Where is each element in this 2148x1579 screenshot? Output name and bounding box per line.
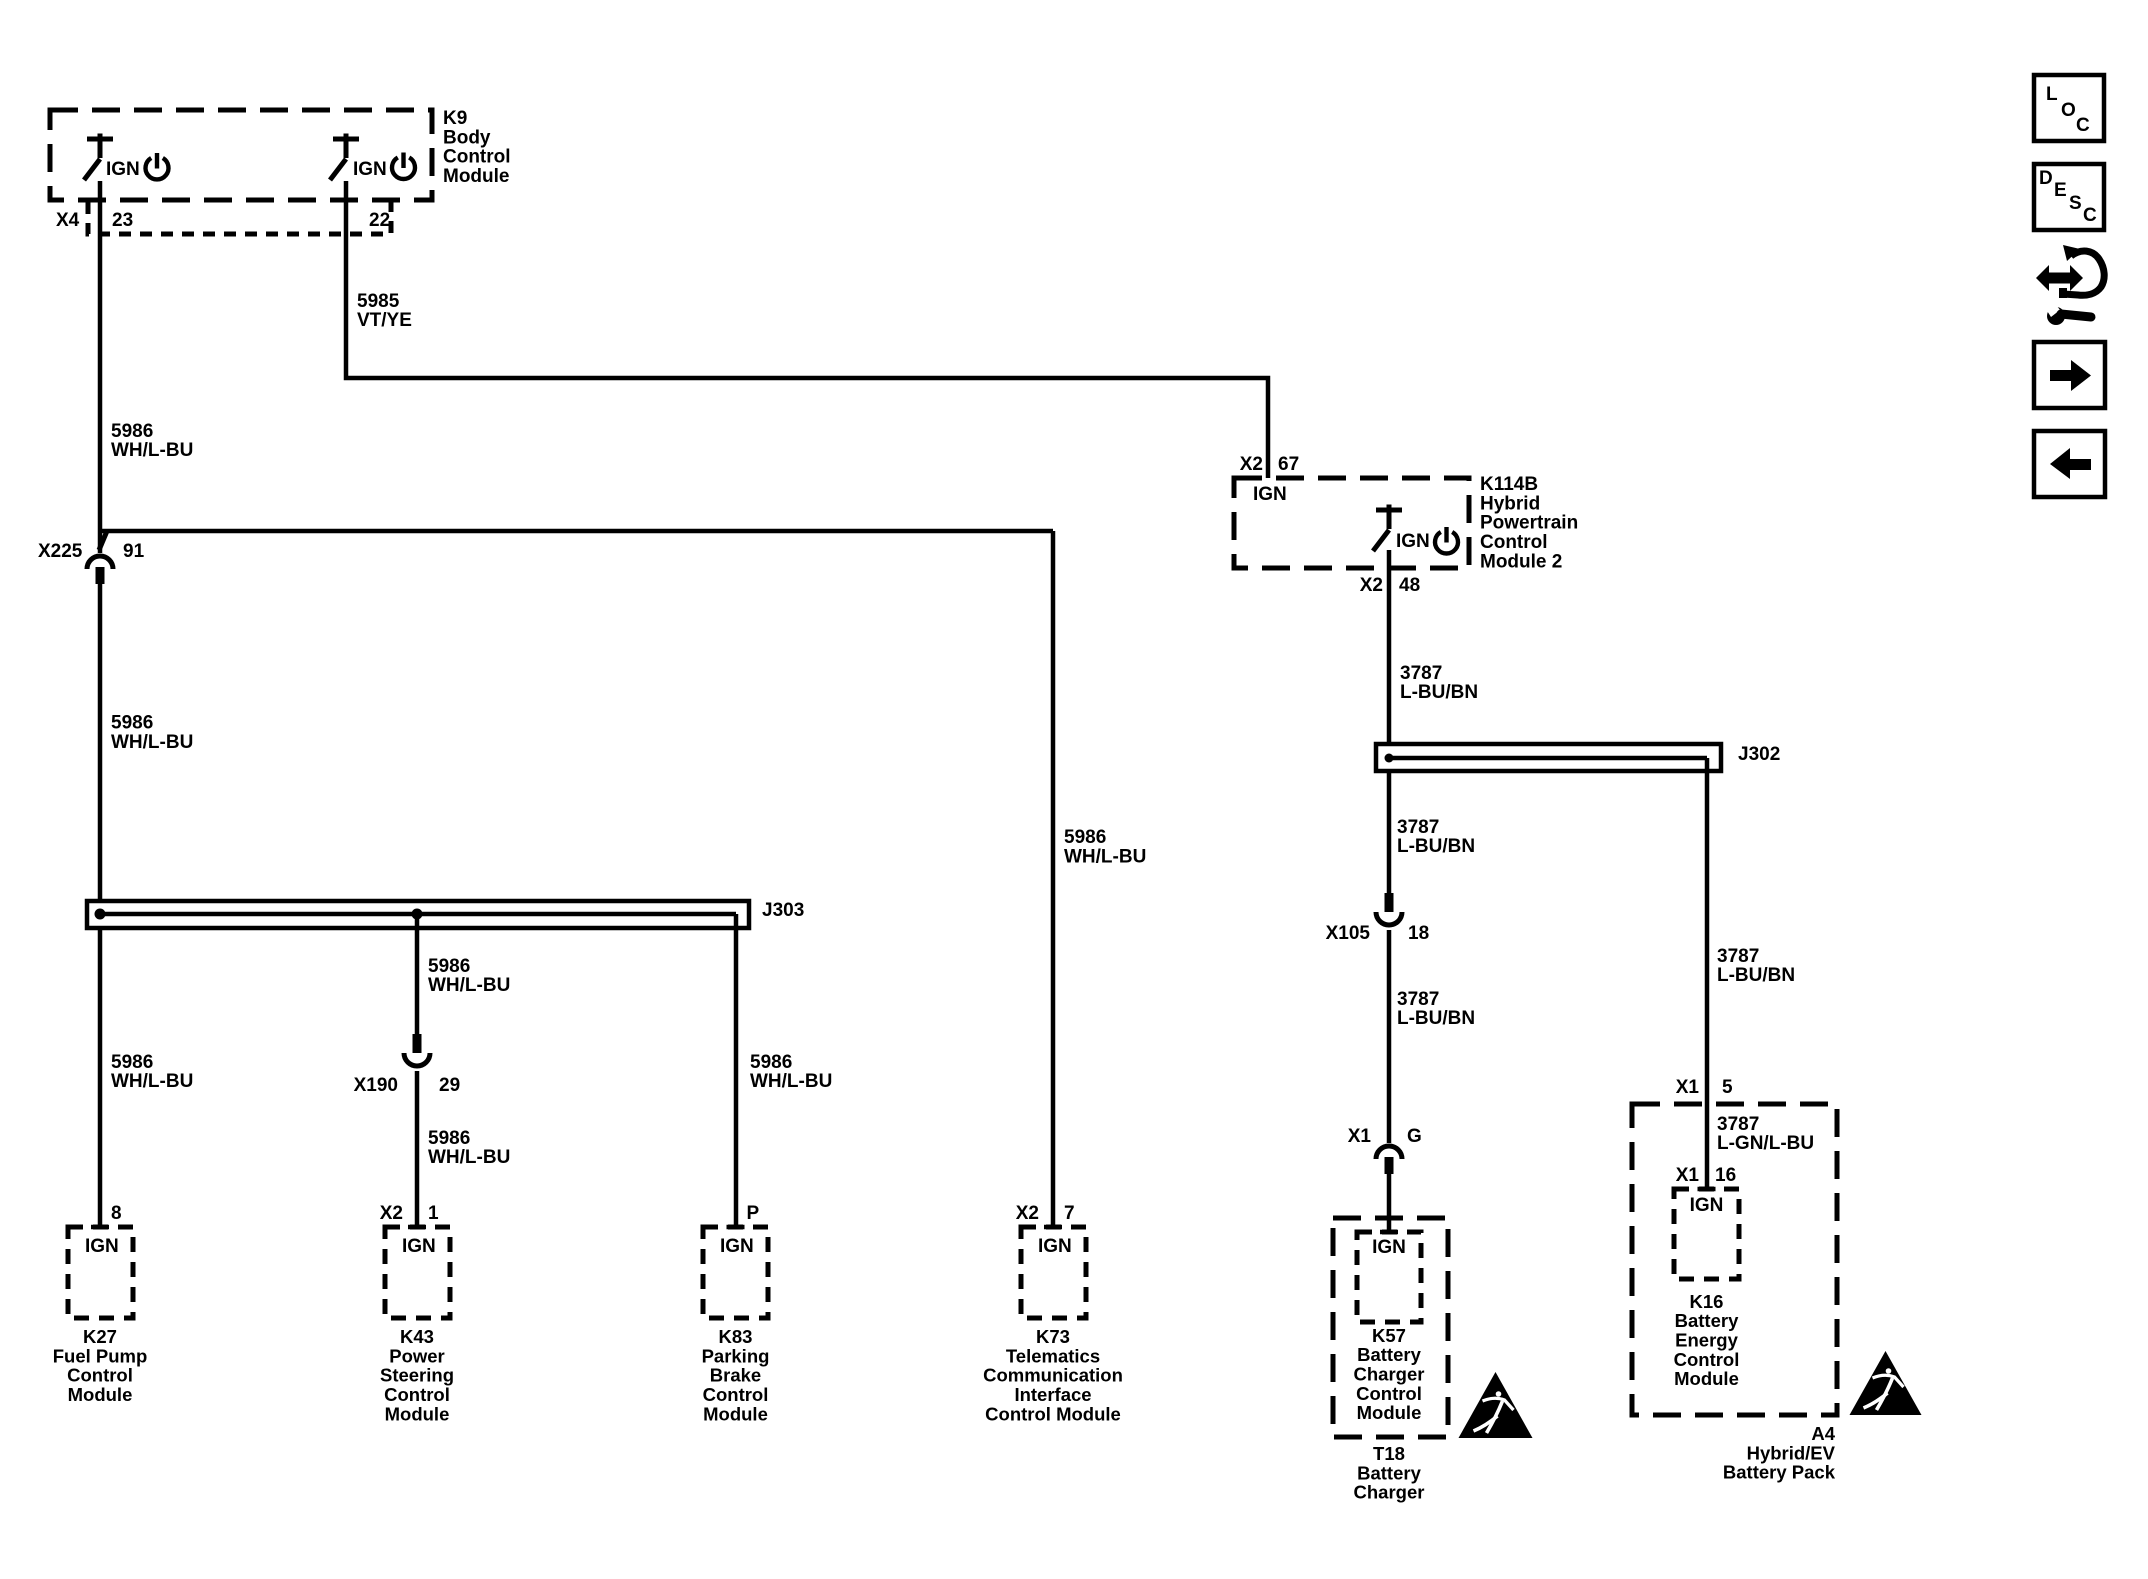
svg-text:X1: X1 xyxy=(1348,1126,1372,1147)
wire 5985 VT/YE from K9 pin 22 to K114B X2-67 xyxy=(346,181,1268,478)
svg-text:A4: A4 xyxy=(1811,1423,1835,1444)
svg-text:Module 2: Module 2 xyxy=(1480,551,1562,572)
svg-text:X1: X1 xyxy=(1676,1165,1700,1186)
wire 3787 X105 to X1-G xyxy=(1387,930,1392,1143)
svg-text:5986: 5986 xyxy=(428,956,470,977)
svg-text:T18: T18 xyxy=(1373,1443,1405,1464)
wire 3787 J302 to K16 xyxy=(1705,771,1710,1189)
svg-text:L-BU/BN: L-BU/BN xyxy=(1400,682,1478,703)
svg-text:X2: X2 xyxy=(1240,454,1263,475)
svg-text:WH/L-BU: WH/L-BU xyxy=(750,1071,832,1092)
svg-text:L-BU/BN: L-BU/BN xyxy=(1397,836,1475,857)
wire branch 5986 to K73 (horizontal) xyxy=(100,529,1053,534)
svg-text:22: 22 xyxy=(369,210,390,231)
J302 bus exit down xyxy=(1705,758,1710,771)
svg-text:L-BU/BN: L-BU/BN xyxy=(1397,1008,1475,1029)
svg-text:WH/L-BU: WH/L-BU xyxy=(428,975,510,996)
module box K114B Hybrid Powertrain Control Module 2 xyxy=(1234,478,1469,568)
svg-text:X190: X190 xyxy=(354,1075,398,1096)
svg-text:Control: Control xyxy=(1356,1383,1422,1404)
svg-text:91: 91 xyxy=(123,541,145,562)
icon button next (right arrow) xyxy=(2034,342,2105,408)
svg-text:Powertrain: Powertrain xyxy=(1480,513,1578,534)
svg-text:D: D xyxy=(2039,168,2053,189)
svg-text:Control: Control xyxy=(703,1384,769,1405)
svg-text:L-GN/L-BU: L-GN/L-BU xyxy=(1717,1133,1814,1154)
svg-text:WH/L-BU: WH/L-BU xyxy=(111,440,193,461)
svg-text:IGN: IGN xyxy=(85,1236,119,1257)
svg-text:Control: Control xyxy=(1674,1349,1740,1370)
svg-text:18: 18 xyxy=(1408,923,1429,944)
svg-text:IGN: IGN xyxy=(1038,1236,1072,1257)
svg-text:Steering: Steering xyxy=(380,1365,454,1386)
component box A4 Hybrid/EV Battery Pack (outer) xyxy=(1632,1104,1837,1415)
svg-text:5986: 5986 xyxy=(750,1052,792,1073)
svg-text:3787: 3787 xyxy=(1717,946,1759,967)
svg-text:WH/L-BU: WH/L-BU xyxy=(428,1147,510,1168)
J303 internal bus xyxy=(100,912,736,917)
svg-text:IGN: IGN xyxy=(1690,1195,1724,1216)
power symbol (K114B switch) xyxy=(1435,532,1458,553)
svg-text:X2: X2 xyxy=(1016,1203,1039,1224)
svg-text:IGN: IGN xyxy=(353,159,387,180)
svg-text:E: E xyxy=(2054,180,2067,201)
J303 bus exit down xyxy=(734,914,739,928)
svg-text:K73: K73 xyxy=(1036,1326,1070,1347)
svg-text:WH/L-BU: WH/L-BU xyxy=(111,1071,193,1092)
svg-text:Control: Control xyxy=(1480,532,1548,553)
ignition switch contact 2 (K9 pin 22) xyxy=(333,137,359,142)
svg-text:Module: Module xyxy=(1357,1402,1422,1423)
svg-text:C: C xyxy=(2083,205,2097,226)
svg-text:3787: 3787 xyxy=(1400,663,1442,684)
wire 5986 from X225 to J303 xyxy=(98,584,103,903)
svg-text:5986: 5986 xyxy=(1064,827,1106,848)
wire 3787 from K114B switch to J302 xyxy=(1387,550,1392,744)
svg-text:Brake: Brake xyxy=(710,1365,761,1386)
svg-text:48: 48 xyxy=(1399,575,1420,596)
svg-text:IGN: IGN xyxy=(1253,484,1287,505)
svg-text:Battery Pack: Battery Pack xyxy=(1723,1462,1836,1483)
warning triangle (shock hazard, A4) xyxy=(1850,1351,1922,1415)
svg-text:K27: K27 xyxy=(83,1326,117,1347)
svg-text:Telematics: Telematics xyxy=(1006,1345,1100,1366)
svg-text:IGN: IGN xyxy=(402,1236,436,1257)
svg-text:Control: Control xyxy=(67,1365,133,1386)
svg-text:VT/YE: VT/YE xyxy=(357,310,412,331)
wire into K57 xyxy=(1387,1174,1392,1232)
svg-text:Module: Module xyxy=(385,1403,450,1424)
svg-text:3787: 3787 xyxy=(1397,989,1439,1010)
svg-text:O: O xyxy=(2061,100,2076,121)
svg-text:Control: Control xyxy=(443,147,511,168)
svg-text:G: G xyxy=(1407,1126,1422,1147)
wire 3787 J302 to X105 xyxy=(1387,771,1392,893)
svg-text:X105: X105 xyxy=(1326,923,1371,944)
svg-text:Module: Module xyxy=(68,1384,133,1405)
branch diagonal tick at X225 xyxy=(99,531,107,550)
K9 pin row connector X4 xyxy=(88,202,391,234)
icon button back (left arrow) xyxy=(2034,431,2105,497)
svg-text:Energy: Energy xyxy=(1675,1330,1738,1351)
svg-text:5985: 5985 xyxy=(357,291,400,312)
module box K16 Battery Energy Control Module xyxy=(1674,1189,1739,1279)
ignition switch contact (K114B) xyxy=(1376,508,1402,513)
wire 5986 down to K73 xyxy=(1051,531,1056,1227)
power symbol (switch 1) xyxy=(146,158,169,179)
svg-text:Control Module: Control Module xyxy=(985,1403,1121,1424)
svg-text:5: 5 xyxy=(1722,1077,1733,1098)
svg-text:Interface: Interface xyxy=(1014,1384,1091,1405)
svg-text:Hybrid: Hybrid xyxy=(1480,493,1540,514)
svg-text:J302: J302 xyxy=(1738,744,1780,765)
svg-text:Charger: Charger xyxy=(1354,1482,1425,1503)
svg-text:X4: X4 xyxy=(56,210,80,231)
svg-text:Battery: Battery xyxy=(1357,1344,1421,1365)
svg-text:IGN: IGN xyxy=(106,159,140,180)
svg-text:Power: Power xyxy=(389,1345,445,1366)
svg-text:WH/L-BU: WH/L-BU xyxy=(111,732,193,753)
svg-text:K57: K57 xyxy=(1372,1325,1406,1346)
svg-text:IGN: IGN xyxy=(1396,531,1430,552)
splice pack J302 xyxy=(1376,744,1721,771)
wire 5986 J303 to K27 xyxy=(98,928,103,1227)
wire 5986 J303 to X190 xyxy=(415,914,420,1034)
svg-text:1: 1 xyxy=(428,1203,439,1224)
svg-text:23: 23 xyxy=(112,210,133,231)
component box T18 Battery Charger (outer) xyxy=(1333,1218,1448,1437)
ignition switch contact 1 (K9 pin 23) xyxy=(87,137,113,142)
power symbol (switch 2) xyxy=(392,158,415,179)
warning triangle (shock hazard, T18) xyxy=(1459,1372,1533,1438)
svg-text:P: P xyxy=(747,1203,760,1224)
module box K27 xyxy=(68,1227,133,1318)
svg-text:L-BU/BN: L-BU/BN xyxy=(1717,965,1795,986)
icon button LOC xyxy=(2034,75,2104,141)
svg-text:5986: 5986 xyxy=(111,421,153,442)
svg-text:J303: J303 xyxy=(762,900,804,921)
svg-text:IGN: IGN xyxy=(1372,1237,1406,1258)
module box K9 Body Control Module xyxy=(50,110,432,200)
svg-text:K83: K83 xyxy=(719,1326,753,1347)
module box K73 xyxy=(1021,1227,1086,1318)
svg-text:X225: X225 xyxy=(38,541,83,562)
svg-text:K114B: K114B xyxy=(1480,474,1538,495)
module box K83 xyxy=(703,1227,768,1318)
module box K57 Battery Charger Control Module xyxy=(1357,1232,1421,1322)
in-line connector X105 pin 18 xyxy=(1385,893,1394,912)
wire 5986 J303 to K83 xyxy=(734,928,739,1227)
svg-text:67: 67 xyxy=(1278,454,1299,475)
svg-text:Battery: Battery xyxy=(1357,1462,1421,1483)
svg-text:X2: X2 xyxy=(380,1203,403,1224)
svg-text:Fuel Pump: Fuel Pump xyxy=(53,1345,148,1366)
svg-text:29: 29 xyxy=(439,1075,460,1096)
splice pack J303 xyxy=(87,901,749,928)
svg-text:X1: X1 xyxy=(1676,1077,1700,1098)
svg-text:8: 8 xyxy=(111,1203,122,1224)
svg-text:Parking: Parking xyxy=(702,1345,770,1366)
svg-text:3787: 3787 xyxy=(1717,1114,1759,1135)
svg-text:Module: Module xyxy=(1674,1368,1739,1389)
svg-text:Hybrid/EV: Hybrid/EV xyxy=(1747,1442,1836,1463)
J302 internal bus xyxy=(1389,756,1707,761)
svg-text:S: S xyxy=(2069,193,2082,214)
module box K43 xyxy=(385,1227,450,1318)
svg-text:Charger: Charger xyxy=(1354,1364,1425,1385)
svg-text:L: L xyxy=(2046,84,2058,105)
in-line connector X1 pin G xyxy=(1376,1146,1402,1159)
svg-text:X2: X2 xyxy=(1360,575,1383,596)
svg-text:5986: 5986 xyxy=(111,713,153,734)
svg-text:Battery: Battery xyxy=(1675,1310,1739,1331)
svg-text:Body: Body xyxy=(443,127,491,148)
svg-text:5986: 5986 xyxy=(111,1052,153,1073)
svg-text:7: 7 xyxy=(1064,1203,1075,1224)
svg-text:IGN: IGN xyxy=(720,1236,754,1257)
svg-text:3787: 3787 xyxy=(1397,817,1439,838)
svg-text:Communication: Communication xyxy=(983,1365,1123,1386)
svg-text:WH/L-BU: WH/L-BU xyxy=(1064,847,1146,868)
wire 5986 X190 to K43 xyxy=(415,1071,420,1227)
icon data-link/wrench xyxy=(2036,245,2104,325)
svg-text:K16: K16 xyxy=(1690,1291,1724,1312)
in-line connector X190 pin 29 xyxy=(413,1034,422,1053)
icon button DESC xyxy=(2034,164,2104,230)
svg-text:Control: Control xyxy=(384,1384,450,1405)
svg-text:K43: K43 xyxy=(400,1326,434,1347)
wire 5986 from K9 pin 23 xyxy=(98,181,103,553)
in-line connector X225 pin 91 xyxy=(87,556,113,569)
svg-text:C: C xyxy=(2076,115,2090,136)
svg-text:16: 16 xyxy=(1715,1165,1736,1186)
svg-text:Module: Module xyxy=(443,166,510,187)
svg-text:Module: Module xyxy=(703,1403,768,1424)
svg-text:K9: K9 xyxy=(443,108,467,129)
svg-text:5986: 5986 xyxy=(428,1128,470,1149)
